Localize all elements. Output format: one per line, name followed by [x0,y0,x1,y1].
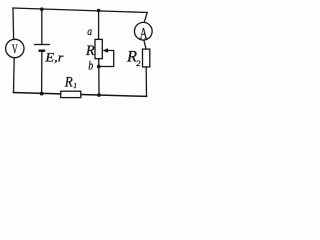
wire right upper (top corner to ammeter) [144,13,147,23]
wire right lower (R2 to bottom corner) [145,67,147,97]
ammeter A [134,22,152,42]
wire bottom [14,93,147,97]
node dot top battery [40,7,44,11]
wire wiper return [99,51,114,67]
wire left upper [12,8,15,39]
svg-text:2: 2 [136,58,141,68]
wire battery branch lower [41,51,43,94]
svg-text:A: A [140,26,148,43]
rheostat wiper arrow [103,48,109,53]
node dot top rheostat [97,9,101,13]
svg-text:a: a [87,24,92,38]
node dot bottom battery [40,92,44,96]
svg-text:V: V [12,41,18,56]
wire rheostat branch upper [98,11,100,40]
wire top [13,8,147,13]
voltmeter V [6,39,24,57]
wire node b to bottom [98,67,100,96]
svg-text:b: b [88,57,93,72]
node dot bottom rheostat [97,93,101,97]
rheostat R (box) [95,39,102,58]
svg-text:1: 1 [73,81,77,90]
battery E,r [34,45,50,51]
svg-text:R: R [64,74,73,90]
wire left lower [13,58,16,93]
wire battery branch upper [41,9,43,44]
node dot b [97,65,101,69]
resistor R2 (box) [143,49,150,67]
resistor R1 (box) [61,91,81,97]
wire rheostat to node b [98,59,100,67]
svg-text:E,r: E,r [44,50,64,65]
wire ammeter to R2 [144,40,146,49]
